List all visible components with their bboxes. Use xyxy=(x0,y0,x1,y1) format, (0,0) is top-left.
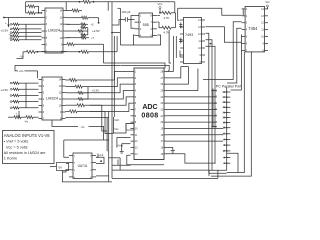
resistor input row 3 left of U2 xyxy=(10,95,12,97)
svg-text:+12: +12 xyxy=(99,153,104,157)
resistor row e right of U1 xyxy=(67,37,81,39)
svg-text:UA741: UA741 xyxy=(78,164,88,168)
label 0V box xyxy=(57,163,69,171)
svg-text:0V: 0V xyxy=(59,165,63,169)
wire vertical D pair xyxy=(113,36,115,117)
wire over-top rail 2 xyxy=(104,63,166,69)
wire U5 right pins down xyxy=(227,52,245,173)
connector J1 pin tick right 21 xyxy=(223,111,230,113)
resistor row a right of U1 xyxy=(67,23,81,25)
wire 555 output down xyxy=(169,45,171,63)
wire U4 left drop xyxy=(179,51,181,58)
resistor row b right of U1 xyxy=(81,26,86,28)
power arrow ground U2 xyxy=(18,111,20,118)
resistor input row 5 left of U1 xyxy=(10,39,12,41)
node on Vcc rail xyxy=(79,1,81,3)
svg-text:-12V: -12V xyxy=(9,37,15,40)
wire long vertical B xyxy=(111,2,113,179)
svg-text:+Vs: +Vs xyxy=(19,69,24,73)
wire C1 drop xyxy=(112,20,119,26)
connector J1 pin tick right 10 xyxy=(223,133,230,135)
svg-text:PC Parallel Port: PC Parallel Port xyxy=(216,84,242,88)
wire bottom rail 3 xyxy=(62,181,112,183)
timer U3 555 xyxy=(139,13,153,37)
node U4 out xyxy=(210,43,212,45)
wire elbow U2 ch3 to ADC pin3 xyxy=(83,84,131,93)
wire Vref small box xyxy=(126,124,134,130)
connector J1 status line xyxy=(212,89,214,128)
resistor row f right of U2 xyxy=(66,110,70,112)
wire bottom rail 2 xyxy=(112,169,209,171)
wire 555 Vcc down xyxy=(172,36,174,63)
connector J1 pin tick left 14 xyxy=(211,121,216,123)
wire joiner left cluster xyxy=(25,24,27,40)
resistor row d right of U1 xyxy=(81,34,86,36)
resistor R2 feedback xyxy=(26,12,28,14)
wire data bus staircase up 1 xyxy=(168,63,174,72)
resistor R4 4.7K xyxy=(157,21,159,23)
svg-text:ADC: ADC xyxy=(142,103,157,111)
wire U4 out right xyxy=(206,27,242,43)
wire input V1 row xyxy=(3,17,5,19)
wire ADC data line D4 xyxy=(168,121,212,123)
wire ADC data line D3 xyxy=(168,115,212,117)
wire U7 pin5 right down xyxy=(96,175,109,177)
resistor input row 4 left of U1 xyxy=(10,35,12,37)
connector J1 ground line xyxy=(226,87,228,170)
wire ADC data line D0 xyxy=(168,96,212,98)
svg-text:Vcc: Vcc xyxy=(158,2,163,6)
wire U7 area to CLK box xyxy=(109,157,120,159)
wire short vertical C xyxy=(107,2,109,11)
resistor R1 feedback xyxy=(26,5,28,7)
svg-text:CLK: CLK xyxy=(114,118,119,122)
wire rail mid 3 xyxy=(25,70,38,72)
wire vertical B to 555 area xyxy=(112,32,120,34)
wire elbow U2 ch2 to ADC pin2 xyxy=(88,78,131,87)
connector J1 pin tick left 12 xyxy=(211,96,216,98)
resistor R3 4.7K xyxy=(160,12,162,14)
resistor input row 5 left of U2 xyxy=(10,107,12,109)
connector J1 pin tick right 20 xyxy=(223,117,230,119)
resistor on Vcc rail xyxy=(83,0,91,3)
resistor divider top xyxy=(82,16,88,19)
svg-text:Vcc = 5 volts: Vcc = 5 volts xyxy=(6,145,28,149)
node U7 out xyxy=(100,160,102,162)
wire ADC data line D7 xyxy=(168,140,224,142)
resistor bottom row U2a xyxy=(8,116,14,118)
svg-text:555: 555 xyxy=(143,23,149,27)
svg-text:7493: 7493 xyxy=(185,33,193,37)
wire rail mid 3 short xyxy=(15,65,18,71)
resistor row c right of U1 xyxy=(67,30,79,32)
op-amp U7 UA741 xyxy=(73,153,92,178)
wire U5 pin14 to Vcc xyxy=(266,8,269,10)
resistor row d right of U2 xyxy=(78,98,83,100)
wire elbow U2 ch5 to ADC pin5 xyxy=(90,97,131,105)
wire long vertical A xyxy=(108,111,110,182)
capacitor on U4 left pins xyxy=(180,23,182,29)
wire joiner left cluster U2 xyxy=(25,83,27,108)
wire U5 left pins down bus 3 xyxy=(231,35,242,90)
wire into 0V box xyxy=(50,166,57,168)
connector J1 pin tick right 9 xyxy=(223,139,230,141)
wire ADC data line D5 xyxy=(168,127,224,129)
wire elbow U2 ch4 to ADC pin4 xyxy=(83,90,131,99)
svg-text:4.7K: 4.7K xyxy=(164,31,170,35)
wire U2 bottom loop -Vs xyxy=(52,120,78,127)
wire data bus staircase up 3 xyxy=(168,67,189,85)
wire U2 bottom loop -Vs part 2 xyxy=(89,127,104,141)
wire ADC data line D1 xyxy=(168,102,212,104)
svg-text:7404: 7404 xyxy=(248,26,258,31)
wire U2 out down vertical 2 xyxy=(90,111,113,133)
svg-text:+T: +T xyxy=(91,37,94,40)
wire top rail drop right xyxy=(174,2,176,13)
svg-text:+: + xyxy=(5,21,7,25)
capacitor on U4 left pins 2 xyxy=(180,38,182,44)
capacitor C1 xyxy=(119,19,125,21)
wire data bus staircase up 2 xyxy=(168,67,181,78)
ground symbol ADC right xyxy=(171,150,175,152)
wire 555 bottom loop xyxy=(133,35,160,45)
wire elbow U2 ch1 to ADC pin1 xyxy=(112,72,131,81)
wire U1 pin14 to divider xyxy=(67,17,82,19)
wire ADC lower right pins down 1 xyxy=(168,147,173,150)
resistor input row 3 left of U1 xyxy=(10,32,12,34)
ADC U6 ADC0808 xyxy=(134,68,164,160)
wire rail mid 2 xyxy=(15,64,121,66)
resistor input row 1 left of U1 xyxy=(10,23,12,25)
svg-text:+2.5V: +2.5V xyxy=(92,89,100,93)
wire ADC pin14 to bottom rail xyxy=(127,155,164,165)
wire U7 pin8 up xyxy=(96,154,98,158)
wire U1 out to bus A xyxy=(67,23,71,25)
wire U4 pin14 top xyxy=(178,8,242,15)
wire bottom border xyxy=(112,177,218,179)
connector J1 pin tick right 17 xyxy=(223,150,230,152)
connector J1 pin tick left 13 xyxy=(211,90,216,92)
connector J1 pin tick right 19 xyxy=(223,122,230,124)
wire CLK box xyxy=(113,117,134,133)
svg-text:• Vref = 5 volts: • Vref = 5 volts xyxy=(4,140,29,144)
connector J1 pin tick right 22 xyxy=(223,106,230,108)
wire 555 trigger loop xyxy=(131,16,135,29)
wire U7 mid connect xyxy=(63,170,70,172)
connector J1 pin tick right 24 xyxy=(223,96,230,98)
wire U4 top left xyxy=(178,8,180,20)
wire connector bottom box xyxy=(227,153,238,172)
wire over-top rail to ADC IN pins right xyxy=(121,65,169,71)
resistor input row 4 left of U2 xyxy=(10,101,12,103)
wire R3 to R4 xyxy=(174,13,176,28)
wire U1 pin9 row resistor xyxy=(67,37,71,39)
svg-text:All resistors in LM324 are: All resistors in LM324 are xyxy=(4,151,46,155)
svg-text:+2.5V: +2.5V xyxy=(92,29,100,33)
wire elbow U2 ch6 to ADC pin6 xyxy=(90,103,131,111)
wire U4 right pin outputs down 3 xyxy=(206,46,216,163)
connector J1 pin tick right 25 xyxy=(223,91,230,93)
wire rail mid 1 xyxy=(23,51,26,53)
wire 0V box to U7 xyxy=(68,166,71,168)
node on vertical B xyxy=(111,32,113,34)
wire bottom rail 1 xyxy=(117,160,119,166)
connector J1 pin tick left 11 xyxy=(211,102,216,104)
wire U2 out down vertical 1 xyxy=(90,105,107,131)
wire Vcc top rail xyxy=(26,1,83,3)
svg-text:+12V: +12V xyxy=(9,33,15,36)
wire data bus staircase up 4 xyxy=(168,69,198,91)
wire ADC pin13 stub xyxy=(122,143,131,145)
resistor input row 2 left of U2 xyxy=(10,88,12,90)
wire divider rail vertical xyxy=(87,28,89,35)
svg-text:0808: 0808 xyxy=(141,112,158,120)
wire to U5 pin1 jog xyxy=(242,9,244,15)
wire ADC left lower pins drop xyxy=(116,137,118,147)
svg-text:1 Kohm: 1 Kohm xyxy=(4,157,17,161)
resistor row e right of U2 xyxy=(66,104,78,106)
connector J1 pin tick left 15 xyxy=(211,115,216,117)
connector J1 pin tick left 10 xyxy=(211,108,216,110)
resistor row b right of U2 xyxy=(66,86,76,88)
wire vertical 107 down xyxy=(106,118,108,152)
svg-text:4.7K: 4.7K xyxy=(164,16,170,20)
wire U5 right down 2 xyxy=(211,52,251,176)
wire staircase top joiner xyxy=(181,66,189,68)
ground symbol near ADC pin12 xyxy=(121,144,123,152)
svg-text:LM324: LM324 xyxy=(48,28,61,33)
wire into U7 pin1 xyxy=(64,140,69,157)
svg-text:+: + xyxy=(16,112,18,116)
wire U7 bottom left xyxy=(62,171,64,182)
svg-text:LM324: LM324 xyxy=(46,96,59,101)
wire ADC data line D6 xyxy=(168,134,224,136)
wire U7 pin7 right xyxy=(96,157,104,163)
terminal Vcc U5 xyxy=(266,5,268,7)
wire U4 right pin outputs down 1 xyxy=(206,33,227,173)
wire ADC lower right pins down 3 xyxy=(168,154,216,163)
wire 555 section left edge xyxy=(118,7,121,9)
note box analog inputs xyxy=(3,131,55,164)
resistor input row 2 left of U1 xyxy=(10,28,12,30)
wire U1 pin14 feedback to rail xyxy=(65,2,67,11)
connector J1 pin tick right 8 xyxy=(223,144,230,146)
wire divider rail vertical U2 xyxy=(87,87,89,99)
wire U5 left pins down bus 1 xyxy=(203,22,242,80)
svg-text:Vcc: Vcc xyxy=(114,127,119,131)
connector J1 pin tick right 18 xyxy=(223,127,230,129)
wire U4 right pin outputs down 2 xyxy=(206,40,213,171)
op-amp U1 LM324 xyxy=(45,8,63,53)
svg-text:Vcc: Vcc xyxy=(265,0,270,4)
wire connector bottom return xyxy=(209,170,227,176)
wire U7 top wires xyxy=(64,139,109,141)
svg-text:ANALOG INPUTS V1-V8: ANALOG INPUTS V1-V8 xyxy=(4,133,50,138)
wire ADC data line D2 xyxy=(168,108,212,110)
connector J1 pin tick right 1 xyxy=(223,162,230,164)
wire U5 left pins down bus 2 xyxy=(227,28,242,83)
node junction R2 xyxy=(38,12,40,14)
resistor row c right of U2 xyxy=(66,92,79,94)
svg-text:100 µF: 100 µF xyxy=(122,10,131,14)
connector J1 pin tick left 16 xyxy=(211,126,216,128)
svg-text:+2.5V: +2.5V xyxy=(1,29,9,33)
wire Vcc drop to R3 xyxy=(159,9,161,13)
svg-text:+2.5V: +2.5V xyxy=(1,88,9,92)
connector J1 pin tick right 23 xyxy=(223,101,230,103)
wire rail mid 1 left drop xyxy=(17,52,24,59)
wire U1 pin8 to bus xyxy=(66,43,69,45)
op-amp U2 LM324 xyxy=(42,77,62,120)
resistor row a right of U2 xyxy=(66,79,70,81)
connector J1 pin tick right 2 xyxy=(223,156,230,158)
wire U2 lower out to bus xyxy=(66,117,109,119)
terminal Vcc 555 xyxy=(159,7,161,9)
resistor input row 1 left of U2 xyxy=(10,82,12,84)
power arrow +5V xyxy=(8,18,10,27)
node rail mid 1 xyxy=(37,51,39,53)
wire left drop from Vcc rail xyxy=(25,2,27,13)
